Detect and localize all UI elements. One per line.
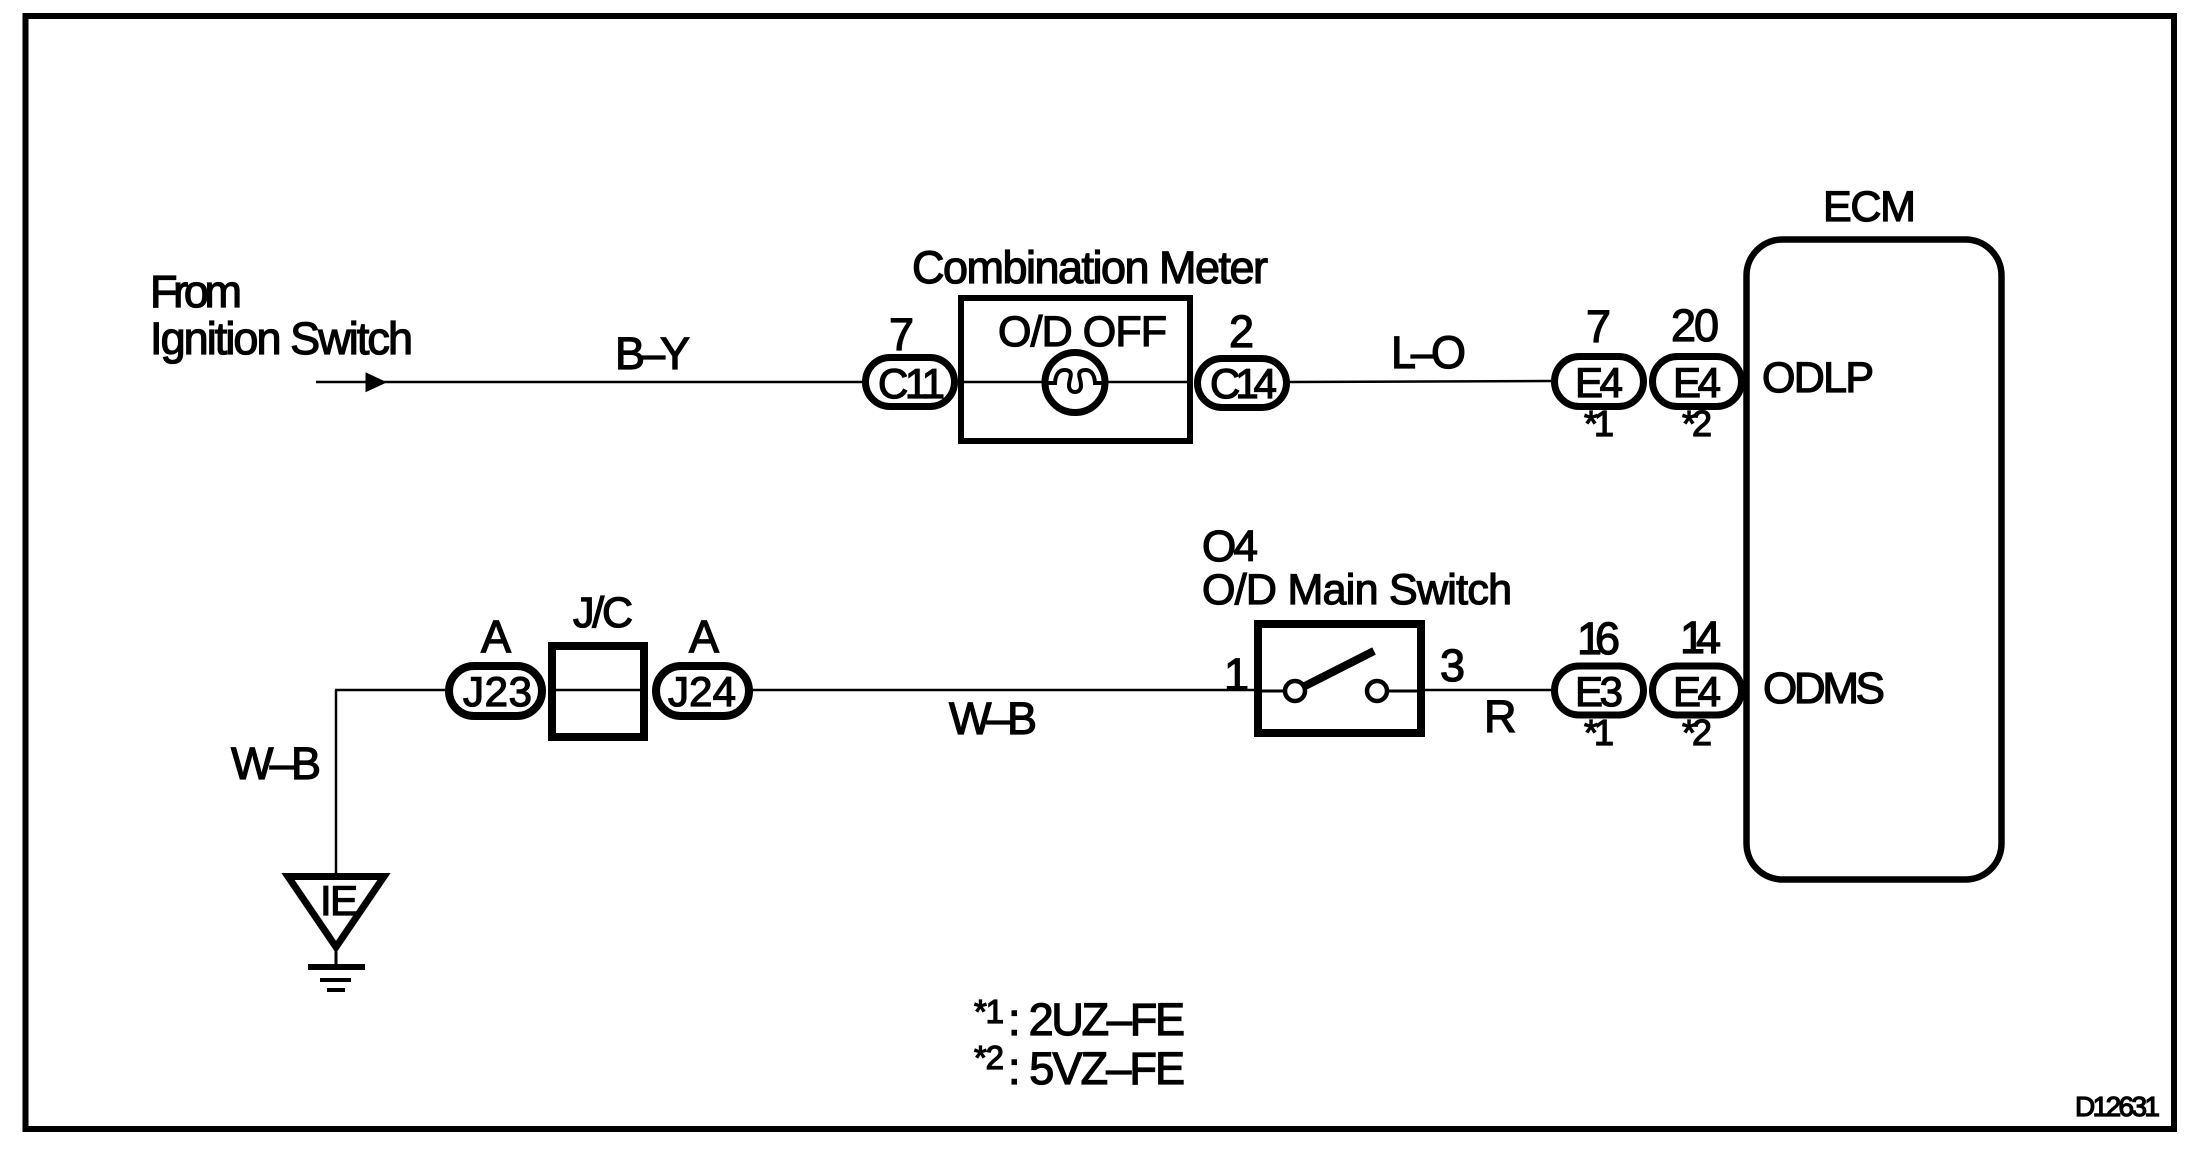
svg-text:*1: *1 — [974, 993, 1004, 1030]
svg-text:B–Y: B–Y — [615, 328, 690, 379]
svg-text:*2: *2 — [974, 1039, 1004, 1076]
ground wire W-B vertical — [335, 690, 445, 874]
junction box J/C — [552, 646, 644, 737]
svg-text:7: 7 — [1586, 301, 1611, 352]
svg-text:2: 2 — [1229, 306, 1254, 357]
wire through combination meter — [964, 381, 1187, 384]
svg-text:O/D OFF: O/D OFF — [998, 308, 1167, 356]
svg-text:: 5VZ–FE: : 5VZ–FE — [1008, 1043, 1185, 1094]
svg-text:J23: J23 — [463, 668, 532, 715]
svg-text:3: 3 — [1440, 640, 1465, 691]
wire L-O from C14 to E4 — [1290, 381, 1551, 382]
svg-text:ECM: ECM — [1823, 183, 1916, 231]
switch O4 contacts and blade — [1262, 651, 1421, 701]
connector E4 *1 — [1555, 357, 1644, 407]
svg-text:Ignition Switch: Ignition Switch — [150, 313, 413, 364]
svg-text:: 2UZ–FE: : 2UZ–FE — [1008, 994, 1185, 1045]
connector J24 — [656, 666, 749, 716]
svg-text:D12631: D12631 — [2075, 1091, 2160, 1122]
svg-text:E4: E4 — [1673, 668, 1721, 715]
wire R from switch to E3 — [1425, 689, 1551, 692]
svg-text:J24: J24 — [668, 668, 736, 715]
connector E4 (ODMS) — [1653, 666, 1742, 715]
svg-text:A: A — [689, 611, 719, 662]
svg-text:From: From — [150, 266, 242, 317]
connector J23 — [449, 666, 542, 716]
svg-text:*2: *2 — [1682, 712, 1712, 753]
svg-text:O/D Main Switch: O/D Main Switch — [1202, 566, 1512, 614]
svg-text:Combination Meter: Combination Meter — [912, 242, 1268, 293]
wire B-Y from ignition switch to C11 with arrow — [316, 372, 862, 392]
svg-text:1: 1 — [1224, 649, 1249, 700]
O/D OFF indicator lamp — [1045, 353, 1105, 413]
svg-text:A: A — [481, 611, 511, 662]
connector E3 — [1555, 666, 1644, 715]
connector E4 *2 — [1653, 357, 1742, 407]
svg-text:C14: C14 — [1210, 360, 1277, 407]
note *1: 2UZ-FE — [974, 993, 1185, 1045]
svg-text:*1: *1 — [1584, 712, 1614, 753]
svg-text:J/C: J/C — [573, 589, 633, 637]
svg-text:E3: E3 — [1575, 668, 1623, 715]
svg-text:L–O: L–O — [1391, 327, 1466, 378]
svg-text:ODMS: ODMS — [1763, 664, 1885, 713]
svg-text:C11: C11 — [878, 360, 945, 407]
svg-text:ODLP: ODLP — [1762, 354, 1874, 402]
svg-text:E4: E4 — [1673, 359, 1721, 406]
svg-text:E4: E4 — [1575, 359, 1623, 406]
note *2: 5VZ-FE — [974, 1039, 1185, 1094]
ECM box — [1747, 240, 2002, 880]
svg-text:R: R — [1484, 691, 1517, 742]
svg-text:W–B: W–B — [231, 738, 321, 789]
svg-text:*1: *1 — [1584, 403, 1614, 444]
Combination Meter box — [961, 298, 1190, 441]
svg-text:IE: IE — [320, 877, 358, 924]
switch O4 box — [1258, 624, 1421, 733]
wire W-B from J24 to O/D main switch — [750, 689, 1254, 692]
svg-text:*2: *2 — [1682, 403, 1712, 444]
svg-text:7: 7 — [889, 309, 914, 360]
connector C11 — [866, 358, 955, 408]
svg-text:20: 20 — [1671, 300, 1719, 351]
connector C14 — [1198, 359, 1287, 408]
ground IE — [288, 877, 384, 991]
svg-text:O4: O4 — [1202, 522, 1258, 571]
svg-text:14: 14 — [1680, 612, 1721, 663]
svg-text:16: 16 — [1577, 613, 1620, 664]
node From Ignition Switch — [150, 266, 413, 364]
svg-text:W–B: W–B — [949, 693, 1037, 744]
